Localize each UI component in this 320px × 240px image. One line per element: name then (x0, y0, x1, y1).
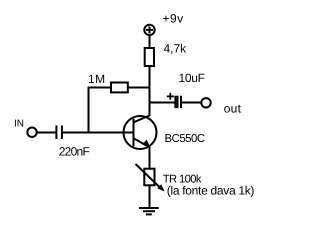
wire in to cap (38, 132, 56, 134)
svg-text:IN: IN (14, 119, 24, 130)
transistor Q1 BC550C (124, 116, 157, 150)
wire 1M left (89, 88, 112, 133)
resistor R1 4,7k (145, 48, 154, 66)
wire cap to base (63, 132, 134, 134)
wire trimmer to ground (149, 185, 151, 208)
wire emitter down (149, 147, 151, 169)
svg-text:out: out (224, 102, 242, 116)
svg-text:220nF: 220nF (59, 144, 90, 158)
trimmer TR1 100k (144, 169, 154, 186)
wire power to R1 (149, 36, 151, 48)
capacitor C2 10uF (175, 96, 181, 108)
capacitor C1 220nF (56, 126, 62, 140)
out terminal (201, 98, 210, 107)
emitter arrowhead (142, 140, 150, 148)
svg-text:(la fonte dava 1k): (la fonte dava 1k) (167, 184, 255, 198)
wire output tap (150, 102, 175, 104)
svg-text:4,7k: 4,7k (164, 42, 188, 56)
ground (139, 208, 159, 214)
in terminal (27, 128, 36, 137)
resistor R2 1M (111, 83, 128, 93)
svg-text:+9v: +9v (163, 11, 184, 25)
trimmer arrow (136, 164, 162, 189)
plus polarity mark (167, 93, 174, 100)
svg-text:BC550C: BC550C (165, 133, 205, 145)
wire collector rail (149, 66, 151, 116)
svg-text:1M: 1M (88, 72, 106, 86)
wire 1M right (128, 87, 151, 89)
wire cap to out (182, 102, 202, 104)
svg-text:10uF: 10uF (179, 71, 205, 85)
power terminal +9v (144, 25, 154, 35)
